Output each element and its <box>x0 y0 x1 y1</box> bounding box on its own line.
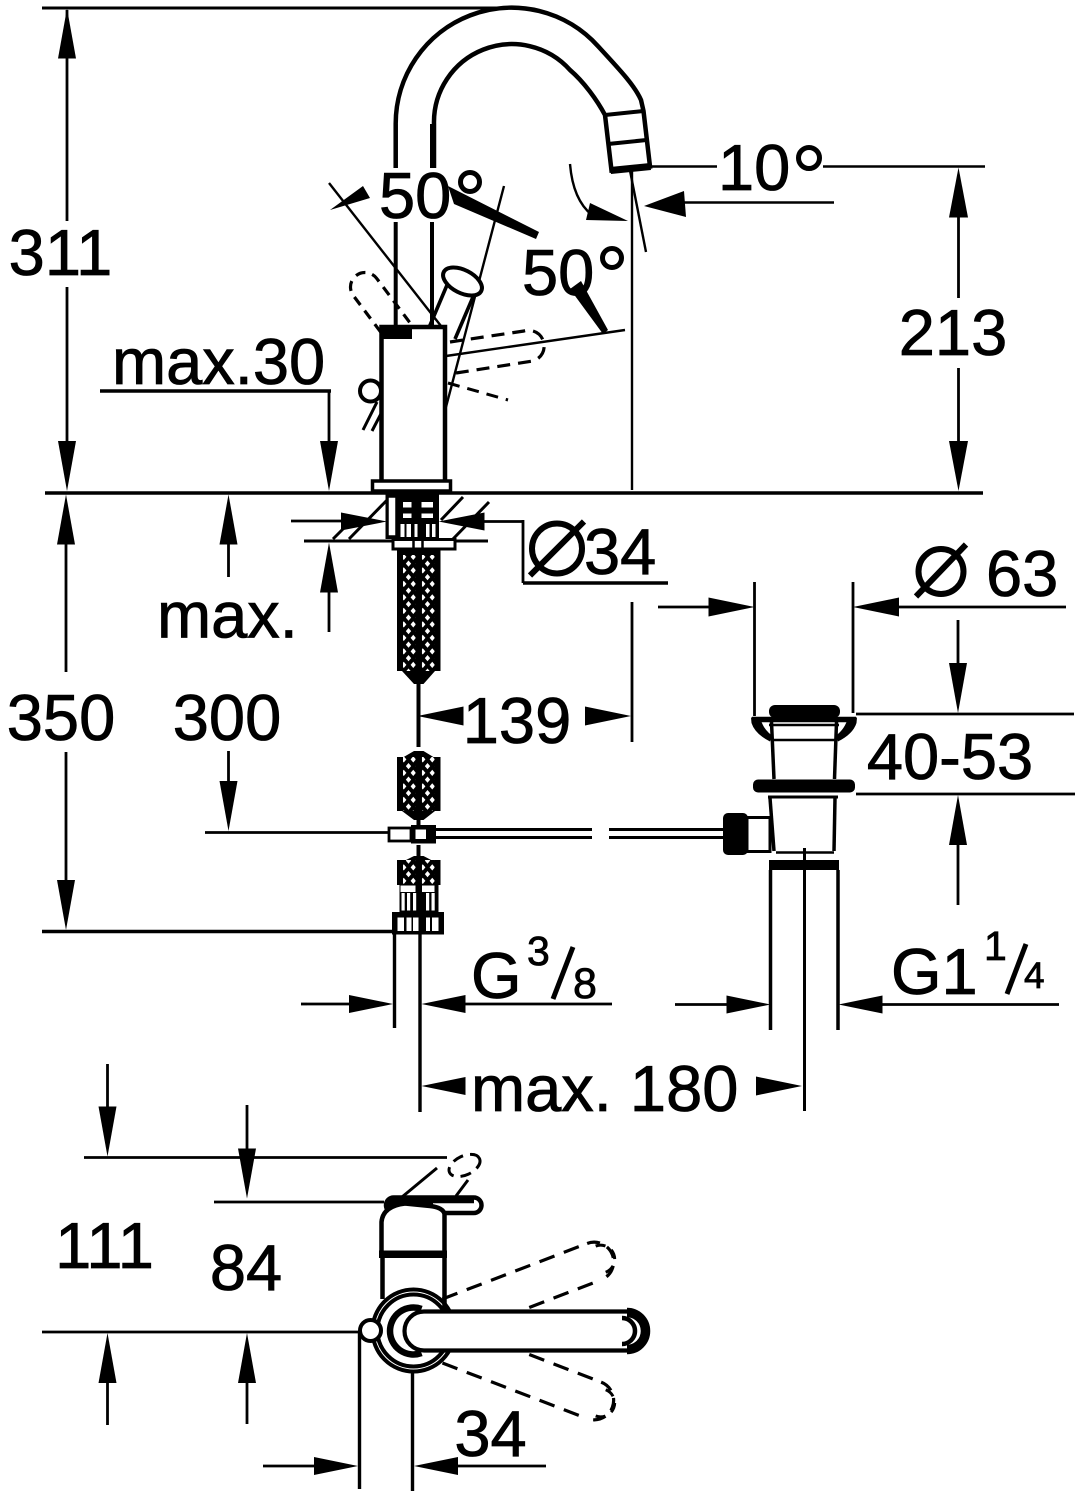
horizontal pop-up rod <box>436 828 592 831</box>
svg-text:max.30: max.30 <box>112 325 325 398</box>
handle axis line left (thin) <box>329 183 441 326</box>
label 10deg line 1 <box>649 165 717 168</box>
svg-text:40-53: 40-53 <box>867 720 1033 793</box>
dimension max300 line with arrows <box>220 495 238 545</box>
label O34 <box>532 524 582 574</box>
waste tailpipe <box>769 870 773 1030</box>
svg-text:34: 34 <box>454 1397 526 1470</box>
10deg dimension line 2 with arrow <box>644 191 686 217</box>
label O63 <box>919 549 964 594</box>
dimension 40-53 line with arrows <box>957 620 960 672</box>
dashed lever (horizontal position) <box>450 330 544 373</box>
escutcheon base plate <box>373 481 451 491</box>
svg-text:50: 50 <box>522 236 594 309</box>
max.30 underline and leader <box>100 389 331 392</box>
deck bottom line <box>304 540 488 543</box>
svg-text:10: 10 <box>718 131 790 204</box>
angle arc arrow left of 50deg <box>330 186 370 210</box>
svg-text:4: 4 <box>1024 955 1045 996</box>
dashed spout swung down <box>442 1327 620 1426</box>
dimension max.180 <box>422 1077 466 1095</box>
svg-text:8: 8 <box>573 960 597 1008</box>
supply pipe outline <box>393 935 396 1029</box>
dashed raised lever <box>402 1168 437 1197</box>
O63 extension lines <box>753 582 756 716</box>
svg-text:G1: G1 <box>891 935 978 1008</box>
reference line spout axis level <box>42 1331 359 1334</box>
spout outlet (mousseur) dark band <box>610 163 651 174</box>
spout in side view <box>405 1312 647 1351</box>
arc arrow for 10deg left <box>570 164 592 215</box>
dimension 34 arrows <box>263 1465 316 1468</box>
hose connector nut <box>392 912 444 935</box>
svg-text:300: 300 <box>173 681 281 754</box>
waste body neck <box>772 722 775 779</box>
waste center line <box>803 848 806 1111</box>
waste plug cap <box>769 705 840 718</box>
extension line at spout apex, y=8 <box>42 7 508 10</box>
waste tailpipe joint <box>776 851 834 854</box>
svg-text:max.: max. <box>157 579 298 652</box>
spout tip band separator 2 <box>608 140 647 144</box>
body top black band <box>382 327 412 339</box>
spout outlet axis vertical thin line <box>631 171 633 490</box>
waste lower body <box>770 798 774 851</box>
horseshoe washer <box>393 540 455 550</box>
dashed spout swung up <box>442 1236 620 1335</box>
body black joint band <box>379 1251 447 1259</box>
svg-text:1: 1 <box>984 923 1007 969</box>
svg-text:G: G <box>471 939 522 1012</box>
spout gooseneck tube <box>396 8 650 171</box>
hose thin rod segment <box>417 684 421 747</box>
angle arc arrow right of 50deg (long wedge) <box>448 186 539 239</box>
svg-text:139: 139 <box>463 684 571 757</box>
waste lever knob <box>723 813 748 855</box>
svg-text:max. 180: max. 180 <box>471 1052 738 1125</box>
body lower part <box>380 1258 385 1299</box>
pop-up rod knob <box>360 381 381 402</box>
reference line lever-rest level <box>214 1201 384 1204</box>
angle wedge arrow for second 50deg <box>570 281 608 334</box>
dimension 139 arrows <box>418 707 464 726</box>
flexible hose upper segment <box>397 548 441 555</box>
riser tube left line <box>394 124 398 168</box>
svg-text:111: 111 <box>55 1209 154 1282</box>
reference line lever-up level <box>84 1156 447 1159</box>
dimension 213 line with arrows <box>949 168 968 218</box>
dashed lever (upper-left position) <box>351 273 410 340</box>
hose connector thread <box>400 884 439 912</box>
body side view <box>382 1204 445 1252</box>
pop-up rod coupling <box>389 828 411 841</box>
bottom reference line <box>42 930 392 933</box>
spout tip band separator 1 <box>605 111 644 115</box>
pop-up knob side view <box>360 1320 381 1341</box>
dimension 311 vertical line with arrows <box>58 9 76 59</box>
svg-text:50: 50 <box>379 159 451 232</box>
lever in side view <box>386 1198 482 1214</box>
40-53 extension lines <box>856 713 1074 716</box>
handle axis line horizontal (thin) <box>446 330 625 356</box>
riser tube right line <box>430 124 434 168</box>
dimension 84 arrows <box>246 1105 249 1156</box>
flexible hose lower segment <box>417 845 421 857</box>
deck line <box>45 491 983 494</box>
svg-text:3: 3 <box>527 928 550 974</box>
svg-text:63: 63 <box>986 537 1058 610</box>
dimension O34 arrows at shank <box>291 520 341 523</box>
spout outlet tilted axis line <box>630 168 647 252</box>
waste rubber washer <box>753 780 855 793</box>
svg-text:311: 311 <box>9 216 113 289</box>
svg-text:34: 34 <box>584 515 656 588</box>
O63 dimension arrows <box>658 606 713 609</box>
shank lines bottom view <box>358 1333 361 1489</box>
swivel joint inner C <box>390 1308 421 1355</box>
svg-text:84: 84 <box>210 1231 282 1304</box>
svg-text:350: 350 <box>7 681 115 754</box>
waste flange <box>752 717 856 723</box>
deck hatch right <box>453 502 489 539</box>
rod level reference line <box>205 831 389 834</box>
faucet body rectangle <box>382 327 446 482</box>
G1 1/4 dimension arrows <box>675 1003 727 1006</box>
flexible hose middle segment <box>402 751 435 758</box>
solid lever cylinder <box>428 278 450 330</box>
svg-text:213: 213 <box>899 296 1007 369</box>
handle axis line right (thin) <box>446 186 504 407</box>
dimension 111 arrows <box>106 1064 109 1114</box>
dimension 350 line with arrows <box>57 495 75 545</box>
swivel joint outer ring <box>373 1290 455 1372</box>
mounting shank block <box>386 494 440 539</box>
G3/8 dimension arrows <box>301 1003 307 1006</box>
deck hatch left <box>349 497 390 539</box>
